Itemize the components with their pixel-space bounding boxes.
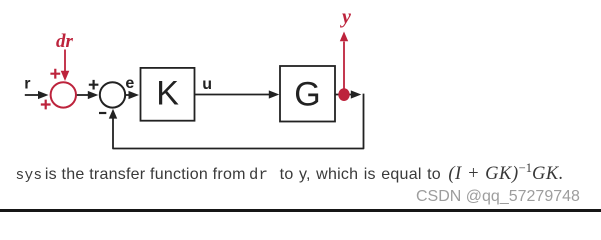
block G (plant) xyxy=(280,66,335,122)
summing junction S2 (black circle) xyxy=(100,82,125,107)
arrowhead dr into summing junction S1 xyxy=(61,71,70,81)
arrowhead feedback into S2 xyxy=(109,109,117,119)
svg-text:y: y xyxy=(340,6,351,28)
svg-text:e: e xyxy=(125,75,134,92)
wire K to G xyxy=(195,94,270,96)
wire y tap vertical xyxy=(343,42,345,90)
arrowhead on output wire xyxy=(351,90,362,98)
wire S2 to K xyxy=(125,94,129,96)
plus sign for r input xyxy=(41,100,51,110)
arrowhead into block K xyxy=(129,91,140,99)
svg-text:G: G xyxy=(294,76,320,114)
block K (controller) xyxy=(141,68,195,121)
svg-text:u: u xyxy=(202,76,212,93)
minus sign for S2 feedback input xyxy=(99,112,106,114)
arrowhead r into summing junction S1 xyxy=(38,91,49,99)
bottom window edge bar xyxy=(0,209,601,212)
node y (red measurement tap dot) xyxy=(338,88,349,101)
wire r input xyxy=(25,94,39,96)
svg-text:K: K xyxy=(156,75,179,113)
arrowhead into block G xyxy=(269,90,280,98)
wire G output to feedback corner xyxy=(335,94,352,96)
arrowhead y output up xyxy=(340,32,348,42)
wire S1 to S2 xyxy=(77,94,89,96)
plus sign for dr input xyxy=(50,69,60,79)
svg-text:r: r xyxy=(24,76,30,93)
plus sign for S2 upper input xyxy=(89,80,99,90)
wire dr vertical xyxy=(64,50,66,73)
caption sentence xyxy=(0,159,564,185)
wire feedback path (right, bottom, left-up) xyxy=(113,94,364,149)
svg-text:dr: dr xyxy=(56,31,74,52)
watermark xyxy=(416,188,580,206)
arrowhead into summing junction S2 xyxy=(88,91,99,99)
summing junction S1 (red circle) xyxy=(51,82,76,107)
